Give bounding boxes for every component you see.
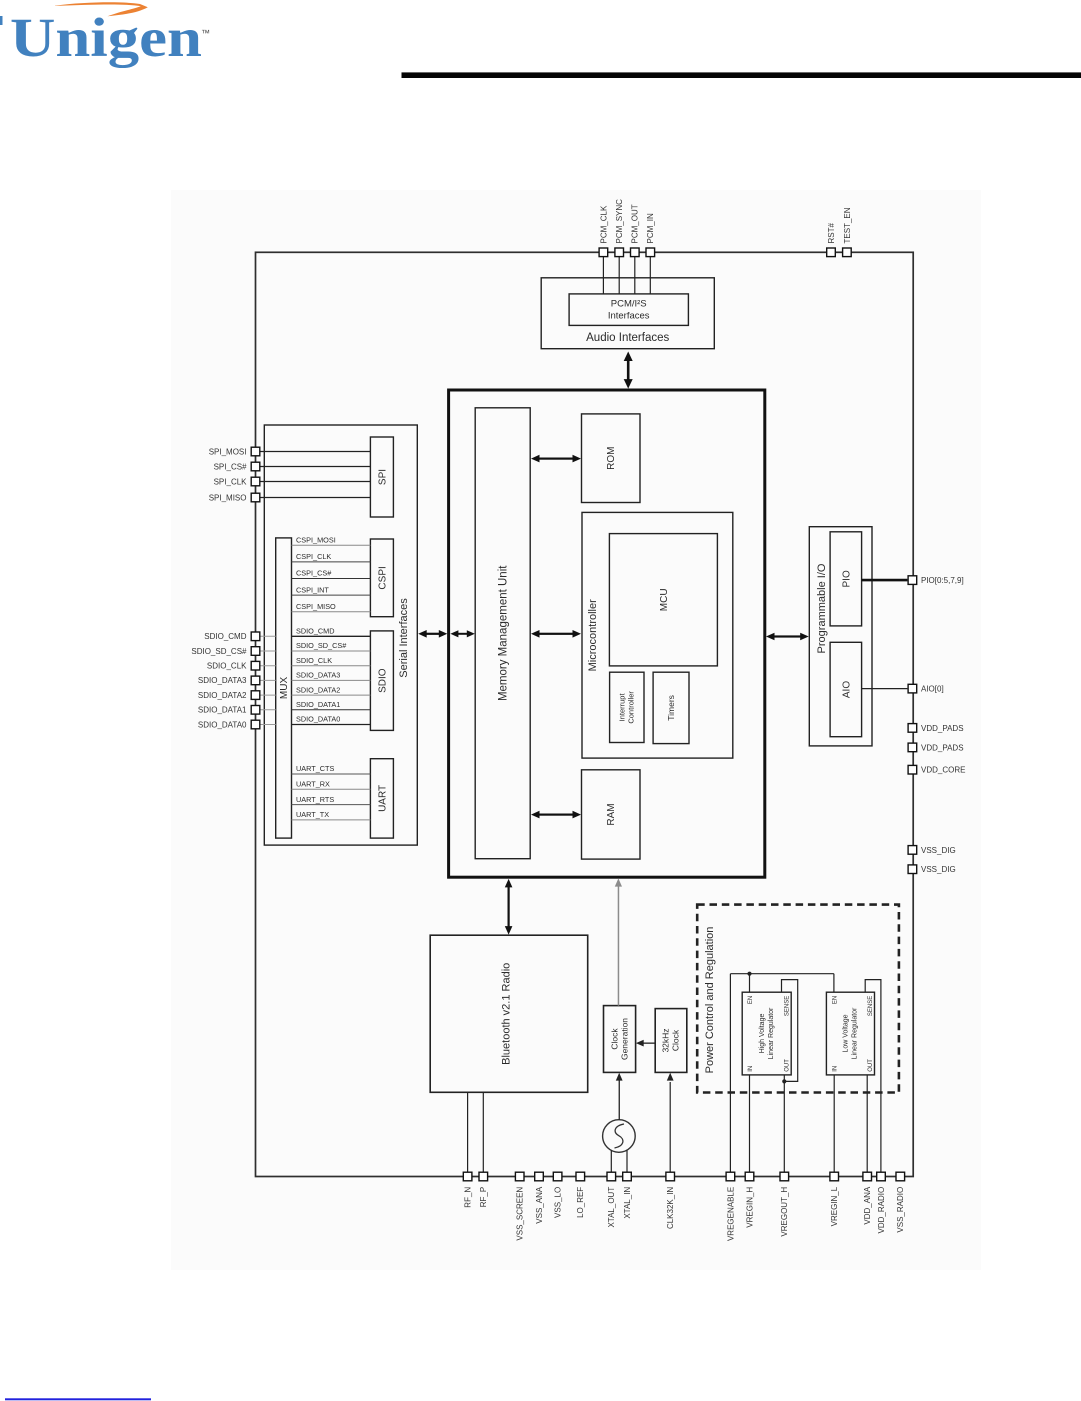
serial interfaces block <box>264 425 417 845</box>
wire VREGENABLE <box>729 974 731 1173</box>
pin SDIO_DATA3 <box>251 676 260 685</box>
pin PCM_OUT <box>631 248 640 257</box>
pins: top edge <box>599 248 851 257</box>
timers <box>653 672 689 743</box>
AIO <box>830 642 862 736</box>
svg-text:VSS_RADIO: VSS_RADIO <box>896 1187 905 1233</box>
svg-text:SDIO_DATA1: SDIO_DATA1 <box>296 700 340 709</box>
svg-text:Audio Interfaces: Audio Interfaces <box>586 332 669 344</box>
pin SDIO_DATA0 <box>251 720 260 729</box>
svg-text:VSS_SCREEN: VSS_SCREEN <box>516 1187 525 1241</box>
footer link underline <box>5 1398 151 1400</box>
svg-text:PCM_CLK: PCM_CLK <box>599 205 608 243</box>
scanned figure background <box>171 190 981 1270</box>
wire RF_P <box>482 1092 484 1172</box>
svg-text:PCM_IN: PCM_IN <box>646 213 655 243</box>
svg-text:UART_RTS: UART_RTS <box>296 795 334 804</box>
svg-text:SDIO_DATA3: SDIO_DATA3 <box>198 676 247 685</box>
pins: left edge <box>251 447 260 729</box>
high voltage linear regulator <box>742 992 791 1075</box>
svg-text:VDD_ANA: VDD_ANA <box>863 1186 872 1224</box>
svg-text:VREGIN_H: VREGIN_H <box>745 1187 754 1228</box>
UART block <box>370 759 393 838</box>
SPI wires <box>260 452 371 498</box>
SPI block <box>370 437 393 517</box>
low voltage linear regulator <box>826 992 874 1075</box>
svg-text:Linear Regulator: Linear Regulator <box>852 1007 859 1059</box>
svg-text:PIO: PIO <box>841 570 852 587</box>
arrow 32k clock -> clock gen <box>636 1040 655 1047</box>
pin CLK32K_IN <box>666 1172 675 1181</box>
SDIO pin stubs to MUX <box>260 636 276 724</box>
pin SPI_MISO <box>251 493 260 502</box>
svg-text:OUT: OUT <box>868 1059 874 1072</box>
CSPI block <box>370 539 393 617</box>
wire RF_N <box>467 1092 469 1172</box>
pin PCM_CLK <box>599 248 608 257</box>
svg-text:PCM_OUT: PCM_OUT <box>631 204 640 243</box>
SDIO signal lines <box>292 636 371 724</box>
pin VDD_PADS2 <box>908 743 917 752</box>
svg-text:SDIO_SD_CS#: SDIO_SD_CS# <box>296 641 347 650</box>
UART signal labels <box>296 764 335 819</box>
svg-text:ROM: ROM <box>606 447 617 470</box>
wire LV EN stub <box>833 974 835 993</box>
svg-text:IN: IN <box>833 1066 839 1072</box>
wire XTAL_OUT leg <box>610 1150 612 1172</box>
svg-text:XTAL_OUT: XTAL_OUT <box>607 1187 616 1228</box>
pin VDD_ANA <box>863 1172 872 1181</box>
svg-text:VSS_DIG: VSS_DIG <box>921 846 956 855</box>
svg-text:SPI_CLK: SPI_CLK <box>214 477 248 486</box>
pin SDIO_CMD <box>251 632 260 641</box>
pins: bottom edge <box>463 1172 904 1181</box>
wire LV OUT / VDD_ANA <box>866 1075 868 1172</box>
svg-text:SDIO_DATA3: SDIO_DATA3 <box>296 671 340 680</box>
pin SPI_CS# <box>251 462 260 471</box>
svg-text:CSPI_MISO: CSPI_MISO <box>296 602 336 611</box>
crystal oscillator <box>603 1120 636 1153</box>
svg-text:Memory Management Unit: Memory Management Unit <box>497 565 509 701</box>
logo sliver <box>0 16 3 25</box>
arrow MMU<->microcontroller <box>531 630 581 638</box>
wire XTAL_IN leg <box>626 1150 628 1172</box>
svg-text:SENSE: SENSE <box>784 996 790 1016</box>
wire PCM_IN <box>649 257 651 294</box>
audio interfaces block <box>541 278 714 349</box>
right pin labels <box>921 576 965 874</box>
bottom pin labels <box>464 1186 906 1241</box>
svg-text:AIO[0]: AIO[0] <box>921 685 944 694</box>
wire HV SENSE loop <box>782 980 798 1082</box>
wire LV SENSE / VDD_RADIO <box>865 980 881 1173</box>
svg-text:Clock: Clock <box>671 1029 681 1051</box>
svg-text:CSPI: CSPI <box>378 566 389 589</box>
svg-text:RST#: RST# <box>827 223 836 244</box>
svg-text:Generation: Generation <box>620 1018 630 1060</box>
svg-text:Programmable I/O: Programmable I/O <box>816 563 828 653</box>
svg-text:SDIO_SD_CS#: SDIO_SD_CS# <box>191 647 247 656</box>
svg-text:PIO[0:5,7,9]: PIO[0:5,7,9] <box>921 576 964 585</box>
pin VDD_CORE <box>908 765 917 774</box>
svg-text:SDIO_DATA2: SDIO_DATA2 <box>296 685 340 694</box>
pin SDIO_DATA1 <box>251 706 260 715</box>
svg-text:SPI_MISO: SPI_MISO <box>209 493 247 502</box>
svg-text:SDIO_CLK: SDIO_CLK <box>296 656 332 665</box>
pin XTAL_OUT <box>607 1172 616 1181</box>
svg-text:SDIO_DATA0: SDIO_DATA0 <box>296 715 340 724</box>
svg-text:CSPI_CLK: CSPI_CLK <box>296 552 331 561</box>
svg-text:Bluetooth v2.1 Radio: Bluetooth v2.1 Radio <box>501 963 513 1065</box>
microcontroller block <box>582 512 733 758</box>
svg-text:Clock: Clock <box>610 1028 620 1050</box>
svg-text:SPI_MOSI: SPI_MOSI <box>209 447 247 456</box>
pin SPI_CLK <box>251 477 260 486</box>
logo swoosh <box>55 2 148 16</box>
wire HV IN / VREGIN_H <box>749 1075 751 1172</box>
pin LO_REF <box>576 1172 585 1181</box>
svg-text:VDD_RADIO: VDD_RADIO <box>877 1187 886 1234</box>
svg-text:VSS_LO: VSS_LO <box>554 1187 563 1218</box>
32kHz clock block <box>655 1009 687 1073</box>
MUX <box>276 538 292 838</box>
svg-text:AIO: AIO <box>841 681 852 698</box>
pin SDIO_SD_CS# <box>251 647 260 656</box>
arrow MMU<->RAM <box>531 811 581 819</box>
junction dot HV OUT <box>782 1079 786 1083</box>
svg-text:Interfaces: Interfaces <box>608 311 650 322</box>
svg-text:SDIO_DATA2: SDIO_DATA2 <box>198 691 247 700</box>
svg-text:RAM: RAM <box>606 803 617 825</box>
power control dashed box <box>697 905 899 1093</box>
interrupt controller <box>610 672 644 742</box>
top pin labels <box>599 199 852 244</box>
pin VREGIN_H <box>745 1172 754 1181</box>
PIO bus wire <box>862 579 908 582</box>
pin VSS_DIG2 <box>908 865 917 874</box>
pin VSS_ANA <box>535 1172 544 1181</box>
pin VSS_RADIO <box>896 1172 905 1181</box>
pin PIO <box>908 576 917 585</box>
pin VREGOUT_H <box>780 1172 789 1181</box>
svg-text:SDIO_CMD: SDIO_CMD <box>296 627 335 636</box>
arrow audio<->bus <box>624 352 633 389</box>
svg-text:Timers: Timers <box>666 695 676 721</box>
svg-text:MUX: MUX <box>279 677 290 700</box>
wire HV EN stub <box>749 974 751 993</box>
svg-text:VSS_ANA: VSS_ANA <box>535 1186 544 1224</box>
pin TEST_EN <box>843 248 852 257</box>
svg-text:Microcontroller: Microcontroller <box>587 599 599 671</box>
pin VREGIN_L <box>830 1172 839 1181</box>
svg-text:VSS_DIG: VSS_DIG <box>921 865 956 874</box>
pin VREGENABLE <box>726 1172 735 1181</box>
pin VSS_LO <box>553 1172 562 1181</box>
svg-text:CSPI_CS#: CSPI_CS# <box>296 569 332 578</box>
svg-text:CLK32K_IN: CLK32K_IN <box>666 1187 675 1229</box>
PIO <box>830 532 862 626</box>
svg-text:RF_P: RF_P <box>479 1187 488 1207</box>
svg-text:SPI: SPI <box>378 469 389 485</box>
pin XTAL_IN <box>623 1172 632 1181</box>
svg-text:32kHz: 32kHz <box>661 1028 671 1052</box>
svg-text:Power Control and Regulation: Power Control and Regulation <box>704 927 716 1074</box>
svg-text:VDD_PADS: VDD_PADS <box>921 724 964 733</box>
svg-text:IN: IN <box>748 1066 754 1072</box>
programmable I/O block <box>809 527 872 746</box>
CSPI signal lines <box>292 545 371 611</box>
pin SDIO_DATA2 <box>251 691 260 700</box>
svg-text:VDD_CORE: VDD_CORE <box>921 766 965 775</box>
pin VSS_SCREEN <box>515 1172 524 1181</box>
arrow clock gen -> bus (gray) <box>615 878 622 1005</box>
SDIO block <box>370 631 393 731</box>
clock generation block <box>604 1006 636 1073</box>
memory management unit <box>475 408 530 859</box>
svg-text:Unigen: Unigen <box>10 7 202 68</box>
PCM/I2S interfaces box <box>569 294 688 326</box>
arrow serial<->bus (outer) <box>418 630 447 638</box>
svg-text:Linear Regulator: Linear Regulator <box>768 1007 775 1059</box>
svg-text:PCM_SYNC: PCM_SYNC <box>615 199 624 244</box>
chip outline <box>256 252 914 1176</box>
pin VDD_RADIO <box>877 1172 886 1181</box>
svg-text:VDD_PADS: VDD_PADS <box>921 743 964 752</box>
svg-text:PCM/I²S: PCM/I²S <box>611 299 647 310</box>
bluetooth radio block <box>430 935 588 1092</box>
header rule bar <box>402 72 1081 78</box>
svg-text:UART: UART <box>378 785 389 812</box>
LOGO <box>0 2 210 68</box>
pin SPI_MOSI <box>251 447 260 456</box>
svg-text:XTAL_IN: XTAL_IN <box>623 1187 632 1219</box>
svg-text:UART_RX: UART_RX <box>296 780 330 789</box>
svg-text:Low Voltage: Low Voltage <box>843 1014 850 1052</box>
pin AIO <box>908 684 917 693</box>
wire HV OUT / VREGOUT_H <box>783 1075 785 1172</box>
svg-text:SDIO_CMD: SDIO_CMD <box>204 632 246 641</box>
svg-text:EN: EN <box>748 996 754 1004</box>
svg-text:™: ™ <box>201 28 210 38</box>
wire LV IN / VREGIN_L <box>833 1075 835 1172</box>
svg-text:EN: EN <box>833 996 839 1004</box>
svg-text:SDIO_DATA1: SDIO_DATA1 <box>198 706 247 715</box>
pins: right edge <box>908 576 917 874</box>
MCU <box>609 534 717 666</box>
pin RST# <box>827 248 836 257</box>
pin VSS_DIG1 <box>908 846 917 855</box>
power wiring <box>670 974 881 1173</box>
junction dot EN <box>747 972 751 976</box>
central bus block <box>449 390 765 877</box>
wire EN rail <box>730 973 834 975</box>
svg-text:UART_TX: UART_TX <box>296 810 329 819</box>
svg-text:TEST_EN: TEST_EN <box>843 207 852 243</box>
svg-text:SDIO_DATA0: SDIO_DATA0 <box>198 720 247 729</box>
arrow MMU<->ROM <box>531 455 581 463</box>
svg-text:VREGOUT_H: VREGOUT_H <box>780 1187 789 1237</box>
arrow bus<->programmable I/O <box>766 633 809 641</box>
svg-text:CSPI_MOSI: CSPI_MOSI <box>296 536 336 545</box>
svg-text:SDIO: SDIO <box>378 668 389 693</box>
pin RF_N <box>463 1172 472 1181</box>
UART signal lines <box>292 774 371 820</box>
svg-text:High Voltage: High Voltage <box>759 1014 766 1054</box>
svg-text:SDIO_CLK: SDIO_CLK <box>207 662 247 671</box>
wire CLK32K_IN <box>669 1082 671 1172</box>
wire PCM_SYNC <box>618 257 620 294</box>
ROM <box>582 414 641 503</box>
arrow CLK32K_IN -> 32k clock <box>667 1073 674 1081</box>
svg-text:Controller: Controller <box>627 691 636 724</box>
pin PCM_IN <box>646 248 655 257</box>
svg-text:VREGIN_L: VREGIN_L <box>830 1186 839 1226</box>
SDIO signal labels <box>296 627 347 724</box>
wire PCM_OUT <box>634 257 636 294</box>
svg-text:SENSE: SENSE <box>868 996 874 1016</box>
left pin labels <box>191 447 247 729</box>
pin VDD_PADS1 <box>908 724 917 733</box>
svg-text:MCU: MCU <box>659 588 670 611</box>
pin RF_P <box>479 1172 488 1181</box>
RAM <box>582 770 641 859</box>
svg-text:SPI_CS#: SPI_CS# <box>214 462 247 471</box>
svg-text:VREGENABLE: VREGENABLE <box>726 1187 735 1241</box>
arrow bus-edge<->MMU (inner) <box>450 630 474 637</box>
pin SDIO_CLK <box>251 661 260 670</box>
arrow bus<->bluetooth radio <box>505 879 513 935</box>
svg-text:RF_N: RF_N <box>464 1187 473 1208</box>
wire PCM_CLK <box>602 257 604 294</box>
svg-text:Interrupt: Interrupt <box>618 693 627 722</box>
svg-text:LO_REF: LO_REF <box>576 1187 585 1218</box>
pin PCM_SYNC <box>615 248 624 257</box>
CSPI signal labels <box>296 536 336 611</box>
svg-text:Serial Interfaces: Serial Interfaces <box>398 598 410 678</box>
svg-text:CSPI_INT: CSPI_INT <box>296 585 329 594</box>
arrow crystal -> clock gen <box>616 1073 623 1120</box>
svg-text:UART_CTS: UART_CTS <box>296 764 335 773</box>
AIO wire <box>862 688 908 690</box>
svg-text:OUT: OUT <box>784 1059 790 1072</box>
